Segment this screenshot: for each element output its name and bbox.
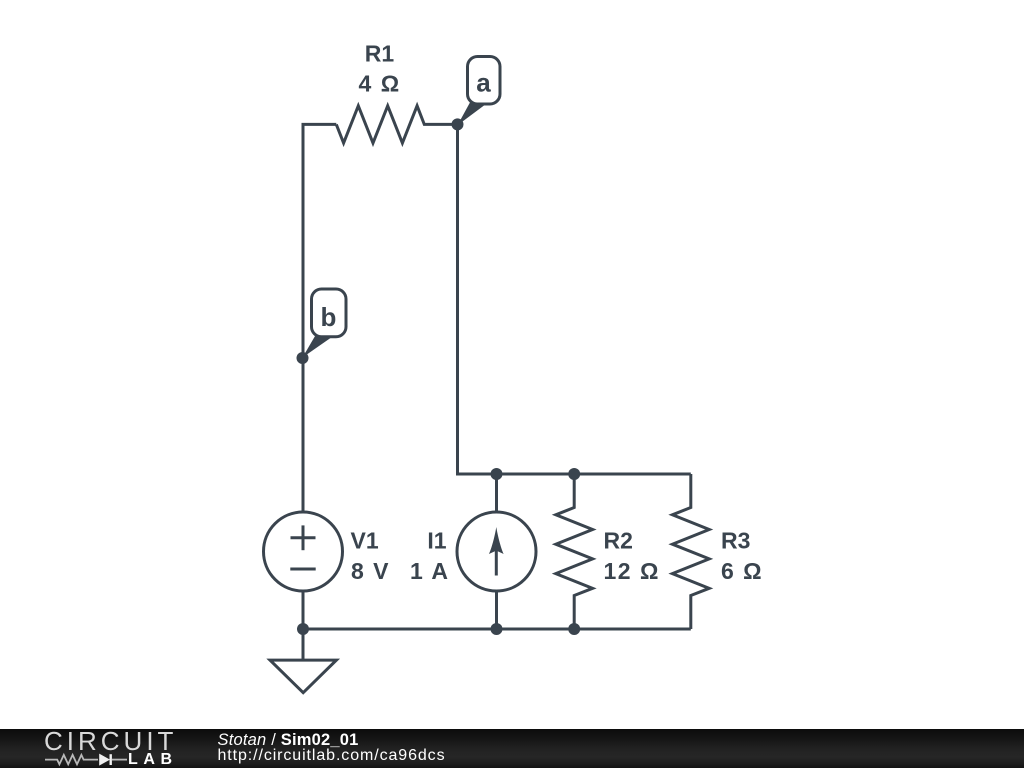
resistor R3 [672, 474, 709, 629]
svg-text:b: b [321, 302, 337, 332]
svg-text:R1: R1 [365, 41, 395, 67]
wire V1 bottom lead [302, 591, 305, 629]
node a callout pointer [458, 102, 487, 126]
junction dot node a [452, 118, 464, 130]
wire I1 top lead [495, 474, 498, 512]
svg-text:12 Ω: 12 Ω [604, 558, 660, 584]
svg-text:V1: V1 [351, 528, 379, 554]
junction dot I1 top [491, 468, 503, 480]
junction dot R2 bottom [568, 623, 580, 635]
resistor R1 [336, 106, 457, 143]
node a flag box [468, 57, 501, 105]
wire node a down and top rail to R3 [458, 124, 691, 474]
logo resistor-diode line [0, 729, 200, 768]
svg-text:4 Ω: 4 Ω [359, 71, 401, 97]
url line [218, 747, 446, 765]
svg-text:R2: R2 [604, 528, 633, 554]
svg-text:I1: I1 [427, 528, 446, 554]
wire I1 bottom lead [495, 591, 498, 629]
wire left branch (V1 top to R1 left lead) [303, 124, 336, 512]
voltage source V1 [264, 512, 343, 591]
ground [270, 660, 336, 693]
I1 arrow head [489, 527, 504, 554]
junction dot R2 top [568, 468, 580, 480]
junction dot node b [297, 352, 309, 364]
svg-text:6 Ω: 6 Ω [721, 558, 763, 584]
CircuitLab wordmark CIRCUIT [44, 728, 177, 754]
svg-text:a: a [476, 68, 491, 98]
svg-text:1 A: 1 A [410, 558, 449, 584]
node b flag box [312, 289, 347, 337]
current source I1 [457, 512, 536, 591]
svg-text:8 V: 8 V [351, 558, 390, 584]
junction dot I1 bottom [491, 623, 503, 635]
CircuitLab wordmark LAB [128, 751, 178, 769]
svg-text:R3: R3 [721, 528, 750, 554]
resistor R2 [556, 474, 593, 629]
wire ground lead [302, 629, 305, 660]
junction dot ground/V1 [297, 623, 309, 635]
title line [218, 731, 359, 750]
bottom rail wire [303, 628, 691, 631]
node b callout pointer [303, 335, 334, 357]
footer bar [0, 729, 1024, 768]
